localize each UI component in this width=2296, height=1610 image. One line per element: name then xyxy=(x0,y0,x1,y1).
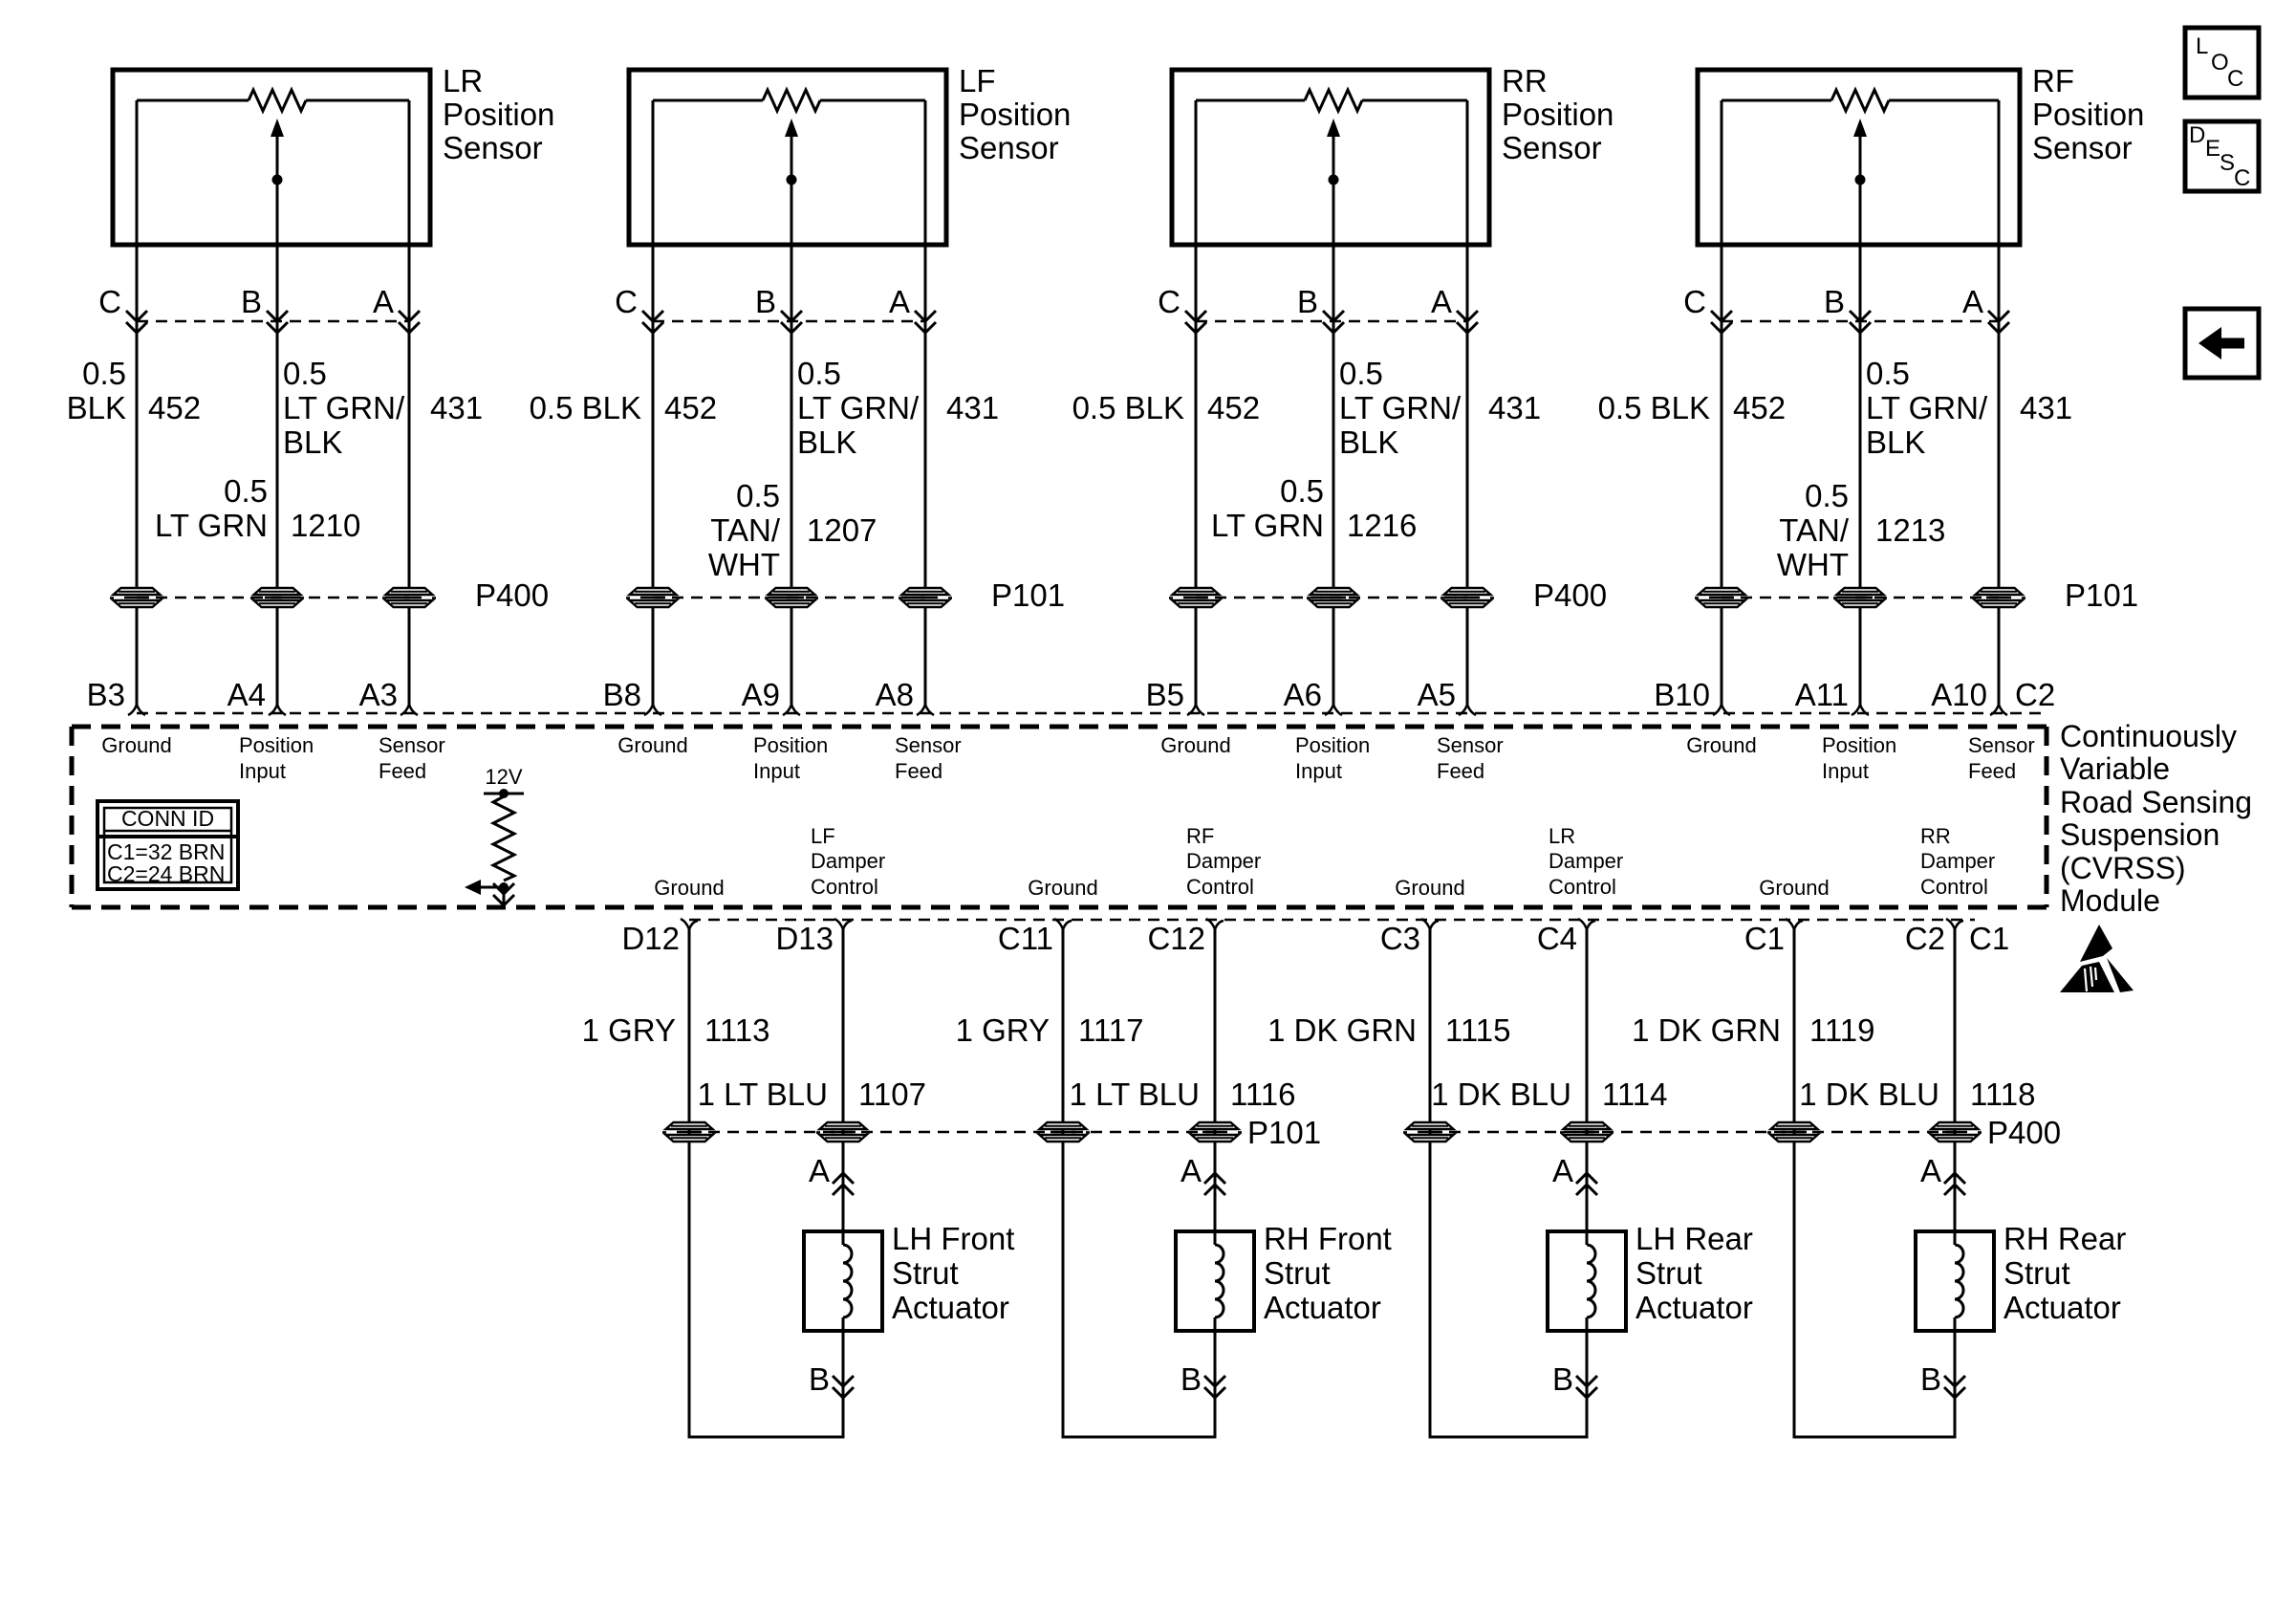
svg-text:A: A xyxy=(809,1153,830,1188)
svg-text:1210: 1210 xyxy=(291,508,360,543)
svg-text:D13: D13 xyxy=(775,921,834,956)
wire RR pin A feed lead xyxy=(1466,100,1469,588)
node RR sensor wiper junction xyxy=(1329,175,1339,185)
svg-text:431: 431 xyxy=(430,390,483,425)
wire RR ground to module xyxy=(1195,607,1198,705)
svg-text:BLK: BLK xyxy=(1339,424,1398,460)
CVRSS module dashed box bottom edge xyxy=(72,905,2047,910)
module pin C1 terminal fork xyxy=(1786,919,1803,929)
wire LF pin B wiper lead xyxy=(791,180,793,588)
RF connector dashed line xyxy=(1722,320,1999,323)
wire 12V to module edge xyxy=(503,887,506,905)
svg-text:C2=24 BRN: C2=24 BRN xyxy=(107,861,225,886)
LF connector dashed line xyxy=(653,320,925,323)
svg-text:1117: 1117 xyxy=(1078,1012,1144,1048)
svg-text:Position: Position xyxy=(1502,97,1614,132)
svg-text:B8: B8 xyxy=(603,677,641,712)
svg-text:A4: A4 xyxy=(227,677,266,712)
LOC reference box xyxy=(2185,28,2259,98)
inline connector P101 at RF signal wire xyxy=(1833,588,1887,607)
svg-text:452: 452 xyxy=(1207,390,1260,425)
inline connector at RH Rear control wire xyxy=(1928,1122,1982,1142)
module pin C12 terminal fork xyxy=(1206,919,1224,929)
inline connector at LH Front control wire xyxy=(816,1122,870,1142)
svg-text:C2: C2 xyxy=(2015,677,2055,712)
svg-text:B10: B10 xyxy=(1654,677,1710,712)
wire RH Front bottom return xyxy=(1062,1436,1217,1439)
DESC reference box xyxy=(2185,121,2259,191)
wire RF sensor internal top-right xyxy=(1889,99,1999,102)
wire damper control LH Front lower xyxy=(842,1317,845,1437)
module pin C11 terminal fork xyxy=(1054,919,1072,929)
module pin D12 terminal fork xyxy=(681,919,698,929)
inline connector P400 at LR signal wire xyxy=(250,588,304,607)
RH Front actuator pin B arrows xyxy=(1204,1376,1225,1386)
svg-text:Sensor: Sensor xyxy=(2032,130,2133,165)
module pin B5 terminal fork xyxy=(1187,705,1204,715)
module pin A5 terminal fork xyxy=(1459,705,1476,715)
svg-text:RH Front: RH Front xyxy=(1264,1221,1392,1256)
svg-text:1118: 1118 xyxy=(1970,1077,2036,1112)
12V exit arrows xyxy=(493,883,514,894)
wire RR pin B wiper lead xyxy=(1332,180,1335,588)
svg-text:B: B xyxy=(1180,1361,1202,1397)
LR position sensor box xyxy=(113,70,430,245)
svg-text:B: B xyxy=(1297,284,1318,319)
svg-text:E: E xyxy=(2205,136,2220,162)
LH Rear actuator pin A arrows xyxy=(1576,1173,1597,1184)
wire RF pin B wiper lead xyxy=(1859,180,1862,588)
module pin A10 terminal fork xyxy=(1990,705,2007,715)
svg-text:P400: P400 xyxy=(475,577,549,613)
svg-text:1207: 1207 xyxy=(807,512,877,548)
svg-text:1107: 1107 xyxy=(858,1077,926,1112)
svg-text:BLK: BLK xyxy=(1866,424,1925,460)
svg-text:A5: A5 xyxy=(1418,677,1456,712)
svg-text:A: A xyxy=(1431,284,1452,319)
svg-text:Actuator: Actuator xyxy=(892,1290,1009,1325)
svg-text:Ground: Ground xyxy=(1759,876,1829,900)
svg-text:(CVRSS): (CVRSS) xyxy=(2060,851,2186,885)
svg-text:Module: Module xyxy=(2060,883,2160,918)
wire RF sensor internal top-left xyxy=(1722,99,1831,102)
svg-text:A6: A6 xyxy=(1284,677,1322,712)
CVRSS module dashed box right edge xyxy=(2045,727,2049,907)
inductor RH Rear strut actuator solenoid coil xyxy=(1952,1245,1958,1317)
inline connector P101 at RF feed wire xyxy=(1972,588,2025,607)
inductor LH Front strut actuator solenoid coil xyxy=(840,1245,846,1317)
wire RF ground to module xyxy=(1721,607,1723,705)
inline connector at LH Front ground wire xyxy=(662,1122,716,1142)
svg-text:1 DK GRN: 1 DK GRN xyxy=(1632,1012,1781,1048)
module pin A4 terminal fork xyxy=(269,705,286,715)
svg-text:Actuator: Actuator xyxy=(1635,1290,1753,1325)
wire LR pin C ground lead xyxy=(136,100,139,588)
svg-text:1116: 1116 xyxy=(1230,1077,1296,1112)
svg-text:Sensor: Sensor xyxy=(1437,733,1504,757)
module pin B3 terminal fork xyxy=(128,705,145,715)
svg-text:LT GRN/: LT GRN/ xyxy=(1866,390,1988,425)
LR pin C connector arrows xyxy=(126,311,147,321)
svg-text:A: A xyxy=(889,284,910,319)
svg-text:BLK: BLK xyxy=(797,424,856,460)
svg-text:431: 431 xyxy=(1488,390,1541,425)
svg-text:LR: LR xyxy=(1549,824,1575,848)
RR sensor wiper arrow xyxy=(1327,119,1340,137)
svg-text:BLK: BLK xyxy=(283,424,342,460)
wire LR signal to module xyxy=(276,607,279,705)
svg-text:LT GRN: LT GRN xyxy=(1211,508,1324,543)
RH Rear strut actuator box xyxy=(1916,1231,1994,1331)
wire LH Rear bottom return xyxy=(1429,1436,1589,1439)
svg-text:A: A xyxy=(1962,284,1983,319)
svg-text:0.5: 0.5 xyxy=(1805,478,1849,513)
inline connector P101 at LF ground wire xyxy=(626,588,680,607)
RR pin C connector arrows xyxy=(1185,311,1206,321)
svg-text:LT GRN/: LT GRN/ xyxy=(797,390,920,425)
LR sensor wiper arrow xyxy=(271,119,284,137)
RF pin A connector arrows xyxy=(1988,311,2009,321)
svg-text:Strut: Strut xyxy=(1635,1255,1702,1291)
resistor LF sensor potentiometer element xyxy=(763,90,820,111)
module pin A3 terminal fork xyxy=(401,705,418,715)
inline connector P400 at RR signal wire xyxy=(1307,588,1360,607)
svg-text:RF: RF xyxy=(1186,824,1214,848)
resistor RR sensor potentiometer element xyxy=(1305,90,1362,111)
svg-text:Ground: Ground xyxy=(1395,876,1464,900)
node RF sensor wiper junction xyxy=(1855,175,1866,185)
wire ground return RH Rear xyxy=(1793,929,1796,1437)
svg-text:C4: C4 xyxy=(1537,921,1577,956)
wire damper control LH Rear lower xyxy=(1586,1317,1589,1437)
wire damper control RH Rear lower xyxy=(1954,1317,1957,1437)
svg-text:1 GRY: 1 GRY xyxy=(582,1012,676,1048)
svg-text:Input: Input xyxy=(1295,759,1342,783)
wire ground return LH Front xyxy=(688,929,691,1437)
wire RF pin C ground lead xyxy=(1721,100,1723,588)
inline connector P101 at RF ground wire xyxy=(1695,588,1748,607)
module pin A8 terminal fork xyxy=(917,705,934,715)
svg-text:0.5: 0.5 xyxy=(1339,356,1383,391)
svg-text:Position: Position xyxy=(239,733,314,757)
svg-text:452: 452 xyxy=(148,390,201,425)
svg-text:Road Sensing: Road Sensing xyxy=(2060,785,2252,819)
svg-text:0.5: 0.5 xyxy=(283,356,327,391)
inline connector at LH Rear ground wire xyxy=(1403,1122,1457,1142)
wire LR pin A feed lead xyxy=(408,100,411,588)
wire RF feed to module xyxy=(1998,607,2001,705)
svg-text:RH Rear: RH Rear xyxy=(2004,1221,2126,1256)
svg-text:P101: P101 xyxy=(1247,1115,1321,1150)
svg-text:WHT: WHT xyxy=(1777,547,1849,582)
wire RR feed to module xyxy=(1466,607,1469,705)
svg-text:Sensor: Sensor xyxy=(443,130,543,165)
svg-text:1 LT BLU: 1 LT BLU xyxy=(1070,1077,1200,1112)
svg-text:1213: 1213 xyxy=(1875,512,1945,548)
RH Front strut actuator box xyxy=(1176,1231,1254,1331)
module pin C3 terminal fork xyxy=(1421,919,1439,929)
svg-text:0.5: 0.5 xyxy=(1866,356,1910,391)
module pin D13 terminal fork xyxy=(834,919,852,929)
svg-text:A10: A10 xyxy=(1931,677,1987,712)
inline connector P400 at LR ground wire xyxy=(110,588,163,607)
LH Front strut actuator box xyxy=(804,1231,882,1331)
P101 inline connector dashed link xyxy=(653,597,925,599)
svg-text:RF: RF xyxy=(2032,63,2074,98)
inductor RH Front strut actuator solenoid coil xyxy=(1212,1245,1218,1317)
svg-text:Damper: Damper xyxy=(1920,849,1995,873)
svg-text:0.5 BLK: 0.5 BLK xyxy=(1598,390,1710,425)
inline connector at RH Front ground wire xyxy=(1036,1122,1090,1142)
LF position sensor box xyxy=(629,70,946,245)
svg-text:Strut: Strut xyxy=(1264,1255,1331,1291)
back arrow box xyxy=(2185,309,2259,378)
RH Rear actuator pin B arrows xyxy=(1944,1376,1965,1386)
wire damper control LH Front upper xyxy=(842,929,845,1245)
svg-text:A: A xyxy=(1180,1153,1202,1188)
svg-text:B: B xyxy=(809,1361,830,1397)
RH Front actuator pin A arrows xyxy=(1204,1173,1225,1184)
LR connector dashed line xyxy=(137,320,409,323)
svg-text:Position: Position xyxy=(1295,733,1370,757)
wire LF pin A feed lead xyxy=(924,100,927,588)
svg-text:C11: C11 xyxy=(998,921,1053,956)
wire LR sensor internal top-left xyxy=(137,99,249,102)
module pin A11 terminal fork xyxy=(1852,705,1869,715)
svg-text:Ground: Ground xyxy=(1686,733,1756,757)
wire LF pin C ground lead xyxy=(652,100,655,588)
inline connector P400 at LR feed wire xyxy=(382,588,436,607)
svg-text:Feed: Feed xyxy=(895,759,942,783)
svg-text:0.5 BLK: 0.5 BLK xyxy=(530,390,641,425)
svg-text:C2: C2 xyxy=(1905,921,1945,956)
svg-text:Feed: Feed xyxy=(1437,759,1484,783)
svg-text:C3: C3 xyxy=(1380,921,1420,956)
svg-text:Ground: Ground xyxy=(617,733,687,757)
inductor LH Rear strut actuator solenoid coil xyxy=(1584,1245,1590,1317)
svg-text:P400: P400 xyxy=(1533,577,1607,613)
wire ground return LH Rear xyxy=(1429,929,1432,1437)
module pin B8 terminal fork xyxy=(644,705,661,715)
inline connector at RH Front control wire xyxy=(1188,1122,1242,1142)
svg-text:1 LT BLU: 1 LT BLU xyxy=(698,1077,828,1112)
svg-text:Actuator: Actuator xyxy=(2004,1290,2121,1325)
wire LR ground to module xyxy=(136,607,139,705)
svg-text:0.5: 0.5 xyxy=(224,473,268,509)
12V supply rail xyxy=(484,793,524,795)
svg-text:0.5: 0.5 xyxy=(1280,473,1324,509)
LR pin B connector arrows xyxy=(267,311,288,321)
svg-text:12V: 12V xyxy=(485,765,522,789)
svg-text:A8: A8 xyxy=(876,677,914,712)
node 12V resistor bottom junction xyxy=(499,882,509,892)
svg-text:Actuator: Actuator xyxy=(1264,1290,1381,1325)
RR pin A connector arrows xyxy=(1457,311,1478,321)
wire LF feed to module xyxy=(924,607,927,705)
CONN ID table box xyxy=(97,801,238,889)
RF sensor wiper arrow xyxy=(1853,119,1867,137)
module pin A6 terminal fork xyxy=(1325,705,1342,715)
svg-text:P101: P101 xyxy=(2065,577,2138,613)
wire LR feed to module xyxy=(408,607,411,705)
svg-text:B: B xyxy=(755,284,776,319)
RH Rear actuator pin A arrows xyxy=(1944,1173,1965,1184)
svg-text:B: B xyxy=(1824,284,1845,319)
svg-text:Variable: Variable xyxy=(2060,751,2170,786)
wire RR sensor internal top-left xyxy=(1196,99,1305,102)
module bottom connector dashed line xyxy=(689,919,1975,922)
P400 inline connector dashed link xyxy=(137,597,409,599)
node LR sensor wiper junction xyxy=(272,175,283,185)
svg-text:1119: 1119 xyxy=(1809,1012,1875,1048)
svg-text:B: B xyxy=(241,284,262,319)
svg-text:A: A xyxy=(1920,1153,1941,1188)
svg-text:Damper: Damper xyxy=(1186,849,1261,873)
svg-text:1 DK GRN: 1 DK GRN xyxy=(1267,1012,1417,1048)
svg-text:Feed: Feed xyxy=(1968,759,2016,783)
svg-text:S: S xyxy=(2220,150,2235,176)
svg-text:C1: C1 xyxy=(1969,921,2009,956)
svg-text:TAN/: TAN/ xyxy=(710,512,781,548)
svg-text:1 GRY: 1 GRY xyxy=(956,1012,1050,1048)
wire damper control RH Front lower xyxy=(1214,1317,1217,1437)
RR pin B connector arrows xyxy=(1323,311,1344,321)
svg-text:A3: A3 xyxy=(359,677,398,712)
svg-text:BLK: BLK xyxy=(67,390,126,425)
svg-text:D: D xyxy=(2189,122,2205,148)
svg-text:Strut: Strut xyxy=(892,1255,959,1291)
CVRSS module dashed box top edge xyxy=(72,725,2047,729)
svg-text:LH Front: LH Front xyxy=(892,1221,1014,1256)
svg-text:B3: B3 xyxy=(87,677,125,712)
svg-text:CONN ID: CONN ID xyxy=(121,806,214,831)
svg-text:A11: A11 xyxy=(1795,677,1849,712)
module pin C4 terminal fork xyxy=(1578,919,1595,929)
svg-text:Sensor: Sensor xyxy=(1968,733,2035,757)
svg-text:C: C xyxy=(615,284,638,319)
svg-text:B: B xyxy=(1552,1361,1573,1397)
svg-text:LR: LR xyxy=(443,63,483,98)
svg-text:LT GRN/: LT GRN/ xyxy=(1339,390,1462,425)
svg-text:Input: Input xyxy=(1822,759,1869,783)
svg-text:C: C xyxy=(98,284,121,319)
inline connector P101 at LF signal wire xyxy=(765,588,818,607)
svg-text:LT GRN/: LT GRN/ xyxy=(283,390,405,425)
svg-text:RR: RR xyxy=(1502,63,1548,98)
svg-text:Control: Control xyxy=(1186,875,1254,899)
svg-text:B5: B5 xyxy=(1146,677,1184,712)
svg-text:C: C xyxy=(1683,284,1706,319)
svg-text:Sensor: Sensor xyxy=(959,130,1059,165)
svg-text:1113: 1113 xyxy=(704,1012,770,1048)
wire RF signal to module xyxy=(1859,607,1862,705)
LH Front actuator pin B arrows xyxy=(833,1376,854,1386)
svg-text:LH Rear: LH Rear xyxy=(1635,1221,1753,1256)
ESD sensitive device symbol xyxy=(2080,925,2112,962)
svg-text:Suspension: Suspension xyxy=(2060,817,2220,852)
RF pin B connector arrows xyxy=(1850,311,1871,321)
svg-text:1 DK BLU: 1 DK BLU xyxy=(1799,1077,1939,1112)
svg-text:452: 452 xyxy=(664,390,717,425)
svg-text:Position: Position xyxy=(443,97,554,132)
svg-text:D12: D12 xyxy=(621,921,680,956)
resistor module internal pull-up xyxy=(493,796,514,881)
LH Rear strut actuator box xyxy=(1548,1231,1626,1331)
svg-text:0.5: 0.5 xyxy=(736,478,780,513)
wire RH Rear bottom return xyxy=(1793,1436,1957,1439)
svg-text:Position: Position xyxy=(753,733,828,757)
wire LR sensor internal top-right xyxy=(306,99,409,102)
module pin C2 terminal fork xyxy=(1946,919,1963,929)
svg-text:0.5: 0.5 xyxy=(82,356,126,391)
svg-text:452: 452 xyxy=(1733,390,1786,425)
svg-text:0.5 BLK: 0.5 BLK xyxy=(1072,390,1184,425)
svg-text:0.5: 0.5 xyxy=(797,356,841,391)
module top connector dashed line xyxy=(137,712,2044,715)
svg-text:LF: LF xyxy=(959,63,996,98)
internal feed arrow left xyxy=(478,886,504,889)
wire RR pin C ground lead xyxy=(1195,100,1198,588)
svg-text:LF: LF xyxy=(811,824,835,848)
svg-text:431: 431 xyxy=(2020,390,2072,425)
RR connector dashed line xyxy=(1196,320,1467,323)
inline connector at LH Rear control wire xyxy=(1560,1122,1614,1142)
svg-text:WHT: WHT xyxy=(708,547,780,582)
svg-text:A: A xyxy=(1552,1153,1573,1188)
svg-text:431: 431 xyxy=(946,390,999,425)
svg-text:1114: 1114 xyxy=(1602,1077,1668,1112)
wire LF sensor internal top-left xyxy=(653,99,763,102)
inline connector P400 at RR ground wire xyxy=(1169,588,1223,607)
wire LH Front bottom return xyxy=(688,1436,845,1439)
svg-text:Input: Input xyxy=(239,759,286,783)
wire ground return RH Front xyxy=(1062,929,1065,1437)
svg-text:Ground: Ground xyxy=(101,733,171,757)
svg-text:Position: Position xyxy=(959,97,1071,132)
svg-text:1115: 1115 xyxy=(1445,1012,1511,1048)
inline connector at RH Rear ground wire xyxy=(1767,1122,1821,1142)
CONN ID title separator xyxy=(104,830,231,833)
LF sensor wiper arrow xyxy=(785,119,798,137)
LF pin C connector arrows xyxy=(642,311,663,321)
wire RR sensor internal top-right xyxy=(1362,99,1467,102)
svg-text:Position: Position xyxy=(1822,733,1896,757)
LH Rear actuator pin B arrows xyxy=(1576,1376,1597,1386)
svg-text:Input: Input xyxy=(753,759,800,783)
svg-text:Damper: Damper xyxy=(811,849,885,873)
svg-text:Sensor: Sensor xyxy=(1502,130,1602,165)
LR pin A connector arrows xyxy=(399,311,420,321)
inline connector P400 at RR feed wire xyxy=(1440,588,1494,607)
svg-text:Ground: Ground xyxy=(1028,876,1097,900)
P400 inline connector dashed link xyxy=(1196,597,1467,599)
svg-text:A9: A9 xyxy=(742,677,780,712)
CVRSS module dashed box left edge xyxy=(70,727,75,907)
LF pin A connector arrows xyxy=(915,311,936,321)
wire LF sensor internal top-right xyxy=(820,99,925,102)
svg-text:TAN/: TAN/ xyxy=(1779,512,1850,548)
svg-text:Sensor: Sensor xyxy=(895,733,962,757)
wire damper control LH Rear upper xyxy=(1586,929,1589,1245)
LF pin B connector arrows xyxy=(781,311,802,321)
svg-text:Sensor: Sensor xyxy=(379,733,445,757)
wire LR pin B wiper lead xyxy=(276,180,279,588)
wire LF ground to module xyxy=(652,607,655,705)
svg-text:A: A xyxy=(373,284,394,319)
wire damper control RH Rear upper xyxy=(1954,929,1957,1245)
svg-text:Feed: Feed xyxy=(379,759,426,783)
svg-text:B: B xyxy=(1920,1361,1941,1397)
